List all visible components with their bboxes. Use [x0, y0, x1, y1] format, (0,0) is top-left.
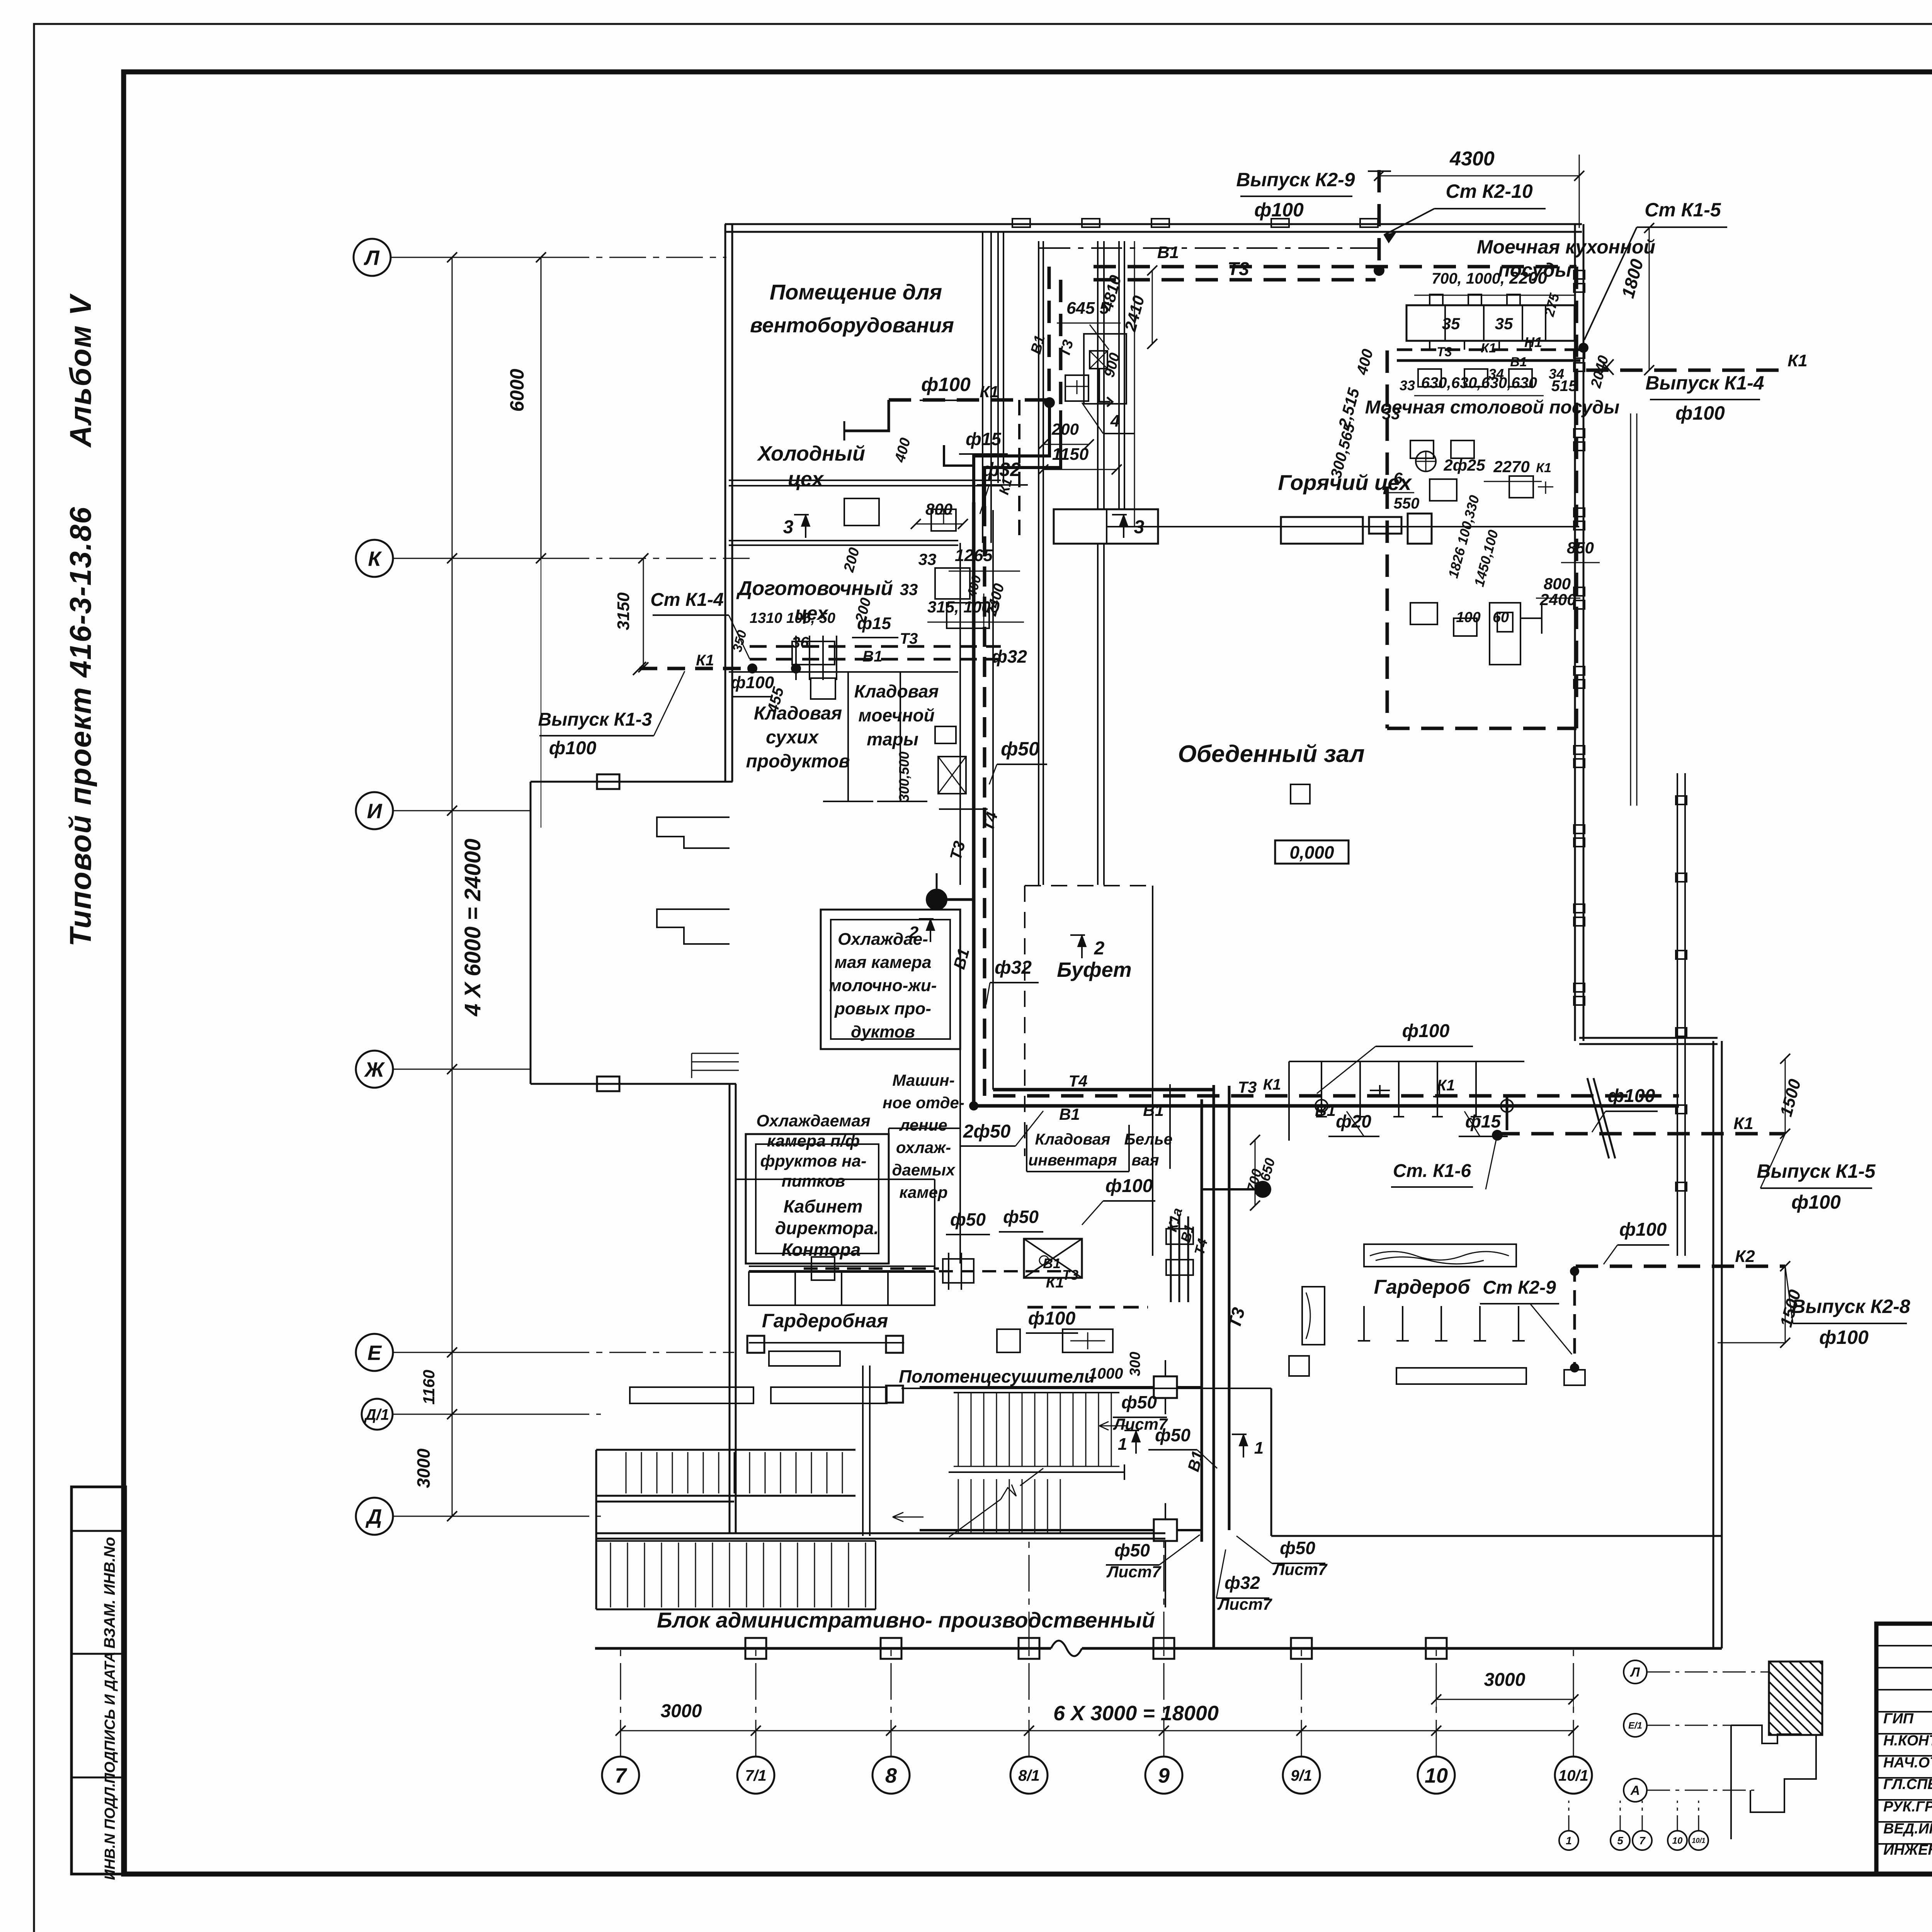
wash dining lower cluster [1490, 603, 1520, 665]
svg-text:1: 1 [1254, 1439, 1264, 1458]
svg-text:дуктов: дуктов [851, 1022, 915, 1041]
axis 7 line [620, 1648, 621, 1757]
svg-text:К1: К1 [696, 652, 714, 669]
svg-text:33: 33 [900, 580, 918, 599]
svg-text:Кабинет: Кабинет [784, 1196, 863, 1216]
riser pipes in corridor (T3 T4 B1) [972, 502, 976, 1106]
towel room radiator [1063, 1329, 1113, 1352]
bench lower [1396, 1368, 1526, 1384]
svg-text:Машин-: Машин- [892, 1071, 954, 1089]
svg-text:инвентаря: инвентаря [1028, 1151, 1117, 1169]
svg-text:Ж: Ж [364, 1058, 385, 1081]
svg-text:Моечная столовой посуды: Моечная столовой посуды [1365, 397, 1620, 418]
shaft wall in corridor [982, 232, 983, 543]
taps on run [1315, 1100, 1328, 1112]
kabinet top wall [736, 1179, 935, 1180]
svg-text:700, 1000,: 700, 1000, [1432, 270, 1505, 287]
svg-text:ф100: ф100 [1105, 1176, 1153, 1196]
svg-text:1160: 1160 [420, 1370, 438, 1405]
svg-text:даемых: даемых [892, 1161, 956, 1179]
SE terrace stair [692, 1053, 739, 1078]
keyplan axis 1 [1559, 1831, 1578, 1850]
bottom outer wall [595, 1647, 1051, 1650]
svg-text:камера п/ф: камера п/ф [767, 1132, 860, 1150]
axis 8/1 line [1029, 1648, 1030, 1757]
kabinet east wall [934, 1179, 935, 1269]
lower-left terrace walls [596, 1501, 734, 1503]
svg-text:ф100: ф100 [1619, 1219, 1667, 1240]
svg-text:директора.: директора. [775, 1218, 879, 1238]
svg-text:ф100: ф100 [1028, 1308, 1076, 1329]
keyplan axis Л [1624, 1660, 1647, 1684]
fixture cluster cold shop [844, 498, 879, 526]
svg-text:НАЧ.ОТД.: НАЧ.ОТД. [1883, 1755, 1932, 1771]
svg-text:Выпуск К2-8: Выпуск К2-8 [1791, 1296, 1910, 1317]
svg-text:Гардеробная: Гардеробная [762, 1310, 888, 1332]
svg-text:ГИП: ГИП [1883, 1711, 1914, 1727]
svg-text:Н.КОНТР.: Н.КОНТР. [1883, 1733, 1932, 1749]
axis К line solid [393, 558, 553, 559]
svg-text:7/1: 7/1 [745, 1767, 767, 1784]
vestibule step upper [657, 817, 730, 848]
svg-text:ф50: ф50 [950, 1209, 986, 1230]
corridor east wall [1038, 241, 1039, 885]
svg-text:1: 1 [1118, 1435, 1127, 1454]
keyplan axis Е/1 [1624, 1714, 1647, 1737]
flow arrow 2 [1081, 935, 1083, 958]
svg-text:35: 35 [1495, 315, 1513, 333]
svg-text:1: 1 [1566, 1835, 1572, 1847]
svg-text:ное отде-: ное отде- [883, 1094, 964, 1112]
vestibule step lower [657, 909, 730, 944]
svg-text:Типовой проект 416-3-13.86: Типовой проект 416-3-13.86 [63, 506, 97, 946]
bottom dimension line [621, 1730, 1573, 1731]
svg-text:Буфет: Буфет [1057, 958, 1131, 981]
svg-text:К1: К1 [1733, 1114, 1753, 1133]
main horizontal run B1 [974, 1104, 1679, 1108]
interior stair lower flight [958, 1479, 959, 1534]
stair down arrow [893, 1512, 923, 1522]
pantry partition [847, 672, 849, 801]
equipment island hot shop [1084, 334, 1126, 404]
svg-text:ф100: ф100 [1254, 199, 1304, 221]
dining small square [1291, 784, 1310, 804]
svg-text:К1: К1 [1536, 461, 1551, 475]
svg-text:10/1: 10/1 [1692, 1837, 1705, 1844]
svg-text:ф100: ф100 [1819, 1327, 1869, 1348]
svg-text:ИНВ.N ПОДЛ.: ИНВ.N ПОДЛ. [102, 1783, 118, 1880]
svg-text:Выпуск К1-4: Выпуск К1-4 [1645, 372, 1764, 394]
svg-text:Т3: Т3 [1228, 259, 1249, 279]
window marks right wall [1574, 270, 1585, 279]
svg-text:Белье: Белье [1124, 1130, 1173, 1148]
branch B1 to towel room upper [920, 1386, 1121, 1388]
svg-text:5: 5 [1617, 1835, 1623, 1847]
svg-text:1000: 1000 [1089, 1365, 1123, 1382]
svg-text:ПОДПИСЬ И ДАТА: ПОДПИСЬ И ДАТА [102, 1651, 118, 1784]
axis Д circle [356, 1498, 393, 1535]
axis Л line [553, 257, 726, 258]
terrace top wall [531, 781, 733, 783]
axis 9 circle [1145, 1757, 1182, 1794]
axis Е circle [356, 1334, 393, 1371]
axis 7 circle [602, 1757, 639, 1794]
svg-text:продуктов: продуктов [746, 751, 850, 772]
bench wood vertical [1302, 1287, 1325, 1345]
svg-text:ф50: ф50 [1114, 1540, 1150, 1560]
sklad fixture cluster [935, 726, 956, 743]
svg-text:ф100: ф100 [549, 738, 597, 759]
svg-text:6000: 6000 [506, 369, 528, 412]
director office south wall [749, 1265, 935, 1267]
sink cross on K1 [1370, 1085, 1390, 1097]
machine room walls [888, 1128, 889, 1264]
wardrobe counter [749, 1272, 935, 1305]
svg-text:ф50: ф50 [1121, 1392, 1157, 1412]
svg-text:В1: В1 [1510, 355, 1527, 369]
svg-text:ф50: ф50 [1155, 1425, 1190, 1445]
svg-text:И: И [367, 799, 383, 823]
tee on K1 [1433, 1087, 1446, 1097]
axis 10/1 line [1573, 1648, 1574, 1757]
cooled chamber MZP outer [821, 910, 960, 1049]
svg-text:10: 10 [1672, 1836, 1683, 1846]
axis Ж line solid [393, 1069, 531, 1070]
svg-text:В1: В1 [1157, 243, 1179, 262]
svg-text:Обеденный зал: Обеденный зал [1178, 741, 1364, 767]
svg-text:2200: 2200 [1509, 269, 1547, 287]
vent room right wall [997, 232, 999, 483]
svg-text:Ст К1-4: Ст К1-4 [650, 590, 724, 610]
garderobnaya benches [630, 1387, 753, 1403]
svg-text:300,500: 300,500 [896, 752, 912, 802]
svg-text:10/1: 10/1 [1558, 1767, 1588, 1784]
svg-text:Выпуск К1-3: Выпуск К1-3 [538, 709, 652, 730]
cooled chamber PF walls [746, 1134, 889, 1264]
svg-text:60: 60 [1493, 609, 1509, 626]
svg-text:Т3: Т3 [1437, 345, 1452, 359]
corridor wall T-foot [939, 808, 988, 810]
building outer wall right upper [1574, 224, 1576, 1041]
svg-text:К2: К2 [1735, 1247, 1755, 1266]
terrace bottom wall [531, 1083, 696, 1085]
svg-text:камер: камер [899, 1183, 947, 1201]
svg-text:3150: 3150 [614, 592, 633, 630]
svg-text:сухих: сухих [766, 727, 819, 748]
flow arrow 1a [1135, 1430, 1137, 1454]
svg-text:4: 4 [1110, 412, 1120, 430]
dim 3150 line [643, 558, 644, 667]
svg-text:200: 200 [1051, 420, 1079, 438]
corridor west wall [959, 543, 961, 885]
K2-9 discharge dashed [1378, 170, 1381, 270]
svg-text:Кладовая: Кладовая [1035, 1130, 1110, 1148]
svg-text:питков: питков [782, 1172, 845, 1190]
svg-text:ф32: ф32 [1225, 1573, 1260, 1593]
flow arrow 2b [930, 919, 931, 942]
svg-text:Гардероб: Гардероб [1374, 1276, 1471, 1298]
svg-text:цех: цех [788, 468, 824, 491]
svg-text:800: 800 [1544, 575, 1571, 593]
svg-text:молочно-жи-: молочно-жи- [829, 976, 937, 995]
svg-text:А: А [1630, 1783, 1640, 1798]
dogot fixtures [795, 636, 797, 680]
svg-text:К1: К1 [1787, 351, 1808, 370]
dogotov bottom wall [729, 671, 958, 673]
axis И circle [356, 792, 393, 829]
svg-text:ф100: ф100 [1608, 1086, 1655, 1106]
svg-text:850: 850 [1567, 539, 1594, 557]
svg-text:3000: 3000 [661, 1701, 702, 1721]
axis 8/1 circle [1010, 1757, 1048, 1794]
loop west drop B1 [1048, 267, 1051, 400]
axis 10 circle [1418, 1757, 1455, 1794]
arrow list7 [1099, 1422, 1126, 1430]
svg-text:34: 34 [1488, 366, 1504, 382]
svg-text:В1: В1 [1143, 1101, 1164, 1119]
keyplan axis 10/1 [1689, 1831, 1708, 1850]
svg-text:Т3: Т3 [1062, 1267, 1078, 1283]
svg-text:33: 33 [1382, 405, 1400, 423]
svg-text:630,630,630,630: 630,630,630,630 [1421, 374, 1537, 391]
svg-text:Полотенцесушители: Полотенцесушители [899, 1366, 1095, 1386]
loop bottom [1387, 727, 1577, 730]
flow arrow 3 left [805, 515, 806, 538]
svg-text:7: 7 [615, 1764, 628, 1787]
svg-text:Д: Д [366, 1505, 382, 1528]
axis 9/1 line [1301, 1648, 1302, 1757]
equip rect cold shop [935, 568, 970, 599]
svg-text:В1: В1 [1059, 1105, 1080, 1123]
K1 dashed lower [1027, 1306, 1148, 1309]
axis Д/1 line [553, 1414, 601, 1415]
svg-text:Ст К1-5: Ст К1-5 [1645, 199, 1721, 221]
svg-text:Т3: Т3 [900, 630, 918, 647]
svg-text:Ст. К1-6: Ст. К1-6 [1393, 1161, 1471, 1181]
pantry south partition feet [900, 672, 901, 801]
axis Е line [553, 1352, 734, 1353]
svg-text:33: 33 [1400, 378, 1415, 393]
keyplan hatched block [1769, 1662, 1822, 1735]
round sink [1416, 451, 1436, 471]
lower right rooms bottom wall [1271, 1535, 1722, 1537]
svg-text:Ст К2-9: Ст К2-9 [1483, 1277, 1556, 1298]
svg-text:1265: 1265 [955, 546, 993, 565]
svg-text:Ст К2-10: Ст К2-10 [1446, 180, 1532, 202]
buffet dashed partition [1025, 885, 1153, 886]
svg-text:Н1: Н1 [1524, 334, 1542, 350]
svg-text:Кладовая: Кладовая [854, 681, 939, 701]
svg-text:К1: К1 [980, 383, 998, 401]
svg-text:ровых про-: ровых про- [834, 999, 931, 1018]
dim 1500 markers right [1785, 1059, 1786, 1134]
svg-text:3000: 3000 [413, 1448, 434, 1488]
svg-text:0,000: 0,000 [1289, 842, 1334, 862]
corridor wall lower right [1270, 1388, 1272, 1536]
main title stamp [1876, 1624, 1932, 1874]
stair block bottom wall [596, 1532, 1165, 1534]
loop inner rise [1386, 350, 1389, 728]
axis 9 line [1163, 1648, 1165, 1757]
svg-text:1150: 1150 [1052, 445, 1089, 464]
axis К line [553, 558, 750, 559]
svg-text:ф32: ф32 [992, 646, 1027, 667]
axis Д/1 circle [362, 1399, 393, 1430]
axis 8 circle [872, 1757, 910, 1794]
keyplan outline [1731, 1725, 1816, 1839]
svg-text:6: 6 [1393, 469, 1403, 487]
K1-5 discharge line lower [1497, 1132, 1785, 1136]
svg-text:10: 10 [1425, 1764, 1448, 1787]
svg-text:ф100: ф100 [921, 374, 971, 395]
axis Л line solid [391, 257, 553, 258]
svg-text:3000: 3000 [1484, 1670, 1526, 1690]
svg-text:К1: К1 [1263, 1076, 1281, 1093]
svg-text:ГЛ.СПЕЦ.: ГЛ.СПЕЦ. [1883, 1776, 1932, 1793]
K1-3 discharge dashed [639, 667, 752, 670]
K2-8 discharge line [1576, 1265, 1785, 1268]
svg-text:фруктов на-: фруктов на- [760, 1152, 867, 1170]
svg-text:4 X 6000 = 24000: 4 X 6000 = 24000 [460, 838, 485, 1017]
svg-text:ф32: ф32 [995, 957, 1032, 978]
cold shop bottom wall [729, 540, 958, 541]
B1 dashed kabinet left [804, 1267, 939, 1270]
keyplan axis 10 [1668, 1831, 1687, 1850]
svg-text:2400: 2400 [1539, 590, 1576, 609]
interior stair upper flight [954, 1392, 1119, 1393]
svg-text:К1: К1 [1046, 1274, 1064, 1291]
hall wall at towel room [901, 1388, 1271, 1389]
svg-text:2: 2 [909, 923, 919, 942]
svg-text:Помещение для: Помещение для [770, 280, 942, 304]
square seat [1289, 1356, 1309, 1376]
main horizontal run T3 (dashed) [993, 1094, 1679, 1098]
right wing east wall [1713, 1041, 1714, 1648]
St K2-9 stack [1573, 1266, 1576, 1370]
svg-text:2270: 2270 [1493, 457, 1529, 476]
svg-text:Е: Е [367, 1341, 382, 1364]
valve assemblies on B1 drop [1154, 1376, 1177, 1398]
axis И line solid [393, 810, 531, 811]
K1a stack cluster [1170, 1216, 1172, 1302]
hot shop counters [1054, 509, 1158, 544]
elevation box 0.000 [1275, 840, 1349, 864]
svg-text:7: 7 [1639, 1835, 1646, 1847]
keyplan axis 7 [1633, 1831, 1652, 1850]
svg-text:9/1: 9/1 [1291, 1767, 1312, 1784]
upper big dashed loop B1/T3 to wash rooms [1094, 265, 1577, 269]
svg-text:Д/1: Д/1 [364, 1406, 389, 1423]
keyplan axis А [1624, 1779, 1647, 1802]
svg-text:35: 35 [1442, 315, 1460, 333]
svg-text:34: 34 [1549, 366, 1564, 382]
axis 10/1 circle [1555, 1757, 1592, 1794]
flow arrow 3 [1123, 515, 1124, 538]
svg-text:2ф50: 2ф50 [963, 1121, 1011, 1142]
svg-text:Л: Л [363, 246, 380, 269]
bench wood [1364, 1244, 1516, 1267]
svg-text:ф50: ф50 [1001, 738, 1039, 760]
svg-text:36: 36 [792, 634, 809, 651]
flow arrow 1b [1243, 1434, 1244, 1458]
left wall mid [729, 1084, 731, 1533]
svg-text:Т3: Т3 [1238, 1078, 1257, 1096]
svg-text:К1: К1 [1481, 341, 1496, 355]
stair block east wall [862, 1366, 864, 1536]
svg-text:ВЗАМ. ИНВ.No: ВЗАМ. ИНВ.No [101, 1537, 118, 1648]
svg-text:6 X 3000 = 18000: 6 X 3000 = 18000 [1053, 1702, 1219, 1725]
hot shop west wall [1097, 241, 1099, 509]
axis 8 line [891, 1648, 892, 1757]
K2 collector line top [1039, 247, 1379, 249]
svg-text:1310 105, 50: 1310 105, 50 [750, 610, 835, 626]
serving hatch wall [1118, 241, 1120, 509]
svg-text:ление: ление [899, 1116, 947, 1134]
svg-text:Выпуск К2-9: Выпуск К2-9 [1236, 169, 1355, 190]
watering tap at camera [927, 889, 947, 910]
svg-text:Доготовочный: Доготовочный [736, 577, 893, 600]
axis Д line solid [393, 1516, 553, 1517]
axis Л circle [354, 239, 391, 276]
wall break squiggle [1051, 1641, 1082, 1656]
wash kitchen sinks row [1406, 305, 1575, 341]
svg-text:Выпуск К1-5: Выпуск К1-5 [1757, 1160, 1876, 1182]
svg-text:Альбом V: Альбом V [63, 293, 97, 448]
building outer wall top [725, 223, 1582, 225]
outdoor stair treads lower [610, 1543, 611, 1607]
svg-text:тары: тары [867, 729, 918, 749]
dim 4300 [1379, 175, 1579, 177]
loop east drop [1575, 267, 1578, 728]
axis К circle [356, 540, 393, 577]
svg-text:ф100: ф100 [1791, 1191, 1841, 1213]
svg-text:К: К [368, 547, 382, 570]
B1 drop to K1-5 [1506, 1097, 1509, 1130]
axis 7/1 line [755, 1648, 757, 1757]
axis Д line [553, 1516, 601, 1517]
svg-text:33: 33 [918, 550, 937, 568]
svg-text:Блок административно- произв: Блок административно- производственный [657, 1608, 1155, 1632]
dim extension verticals right [1630, 413, 1631, 806]
svg-text:Холодный: Холодный [757, 442, 865, 465]
axis Ж circle [356, 1051, 393, 1088]
svg-text:ф100: ф100 [1402, 1021, 1450, 1041]
svg-text:Л: Л [1629, 1665, 1640, 1680]
svg-text:ИНЖЕН.: ИНЖЕН. [1883, 1842, 1932, 1858]
upper garderob room [1289, 1061, 1524, 1062]
K1 line f100 upper [889, 398, 1049, 402]
linen room walls [1026, 1125, 1027, 1172]
svg-text:550: 550 [1394, 495, 1420, 512]
building outer wall left upper [724, 224, 726, 782]
stair direction arrow [949, 1468, 1043, 1537]
svg-text:охлаж-: охлаж- [896, 1138, 951, 1156]
svg-text:мая камера: мая камера [835, 953, 932, 972]
svg-text:800: 800 [925, 500, 952, 518]
loop west drop T3 [1059, 280, 1063, 410]
garderobnaya south wall [749, 1342, 904, 1344]
K1-4 crossing mark [1600, 359, 1614, 375]
svg-text:моечной: моечной [858, 705, 934, 725]
svg-text:вая: вая [1131, 1151, 1159, 1169]
main horizontal run T4 [993, 1088, 1214, 1092]
coat hooks [1363, 1306, 1365, 1341]
canted corner wall [1594, 1078, 1615, 1158]
svg-text:8: 8 [885, 1764, 897, 1787]
stair handrail [949, 1471, 1124, 1473]
svg-text:Моечная кухонной: Моечная кухонной [1477, 236, 1655, 258]
svg-text:4300: 4300 [1449, 148, 1495, 170]
